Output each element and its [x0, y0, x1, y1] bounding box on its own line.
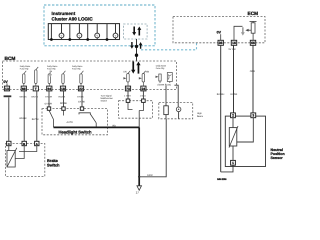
svg-text:Fuse Rly: Fuse Rly [72, 67, 82, 70]
svg-text:B: B [23, 142, 25, 146]
svg-text:Fuse Rly: Fuse Rly [156, 67, 166, 70]
svg-text:ECM: ECM [248, 11, 259, 17]
svg-text:3: 3 [252, 114, 254, 118]
svg-text:ORG: ORG [250, 70, 255, 73]
svg-text:WH/BK: WH/BK [20, 96, 28, 99]
svg-text:13: 13 [5, 87, 9, 91]
svg-text:UN: UN [123, 71, 127, 74]
svg-text:NN: NN [146, 71, 150, 74]
svg-text:GY/BK: GY/BK [77, 96, 84, 99]
svg-text:BK/WH: BK/WH [217, 93, 225, 96]
svg-text:High: High [197, 112, 202, 115]
svg-text:Beam: Beam [197, 115, 203, 118]
svg-text:Instrument: Instrument [52, 11, 76, 16]
svg-text:BCM: BCM [5, 56, 16, 62]
svg-text:RD/BK: RD/BK [60, 102, 67, 105]
svg-text:2: 2 [232, 114, 234, 118]
svg-text:Fuse Rly: Fuse Rly [20, 67, 30, 70]
svg-text:C: C [8, 142, 10, 146]
svg-text:AUTO: AUTO [67, 121, 74, 124]
svg-text:66: 66 [251, 41, 255, 45]
svg-text:36: 36 [219, 41, 223, 45]
svg-text:V: V [79, 34, 81, 37]
svg-text:(Sheet Front): (Sheet Front) [158, 83, 172, 86]
svg-text:G302: G302 [147, 174, 153, 177]
svg-text:BK/TN: BK/TN [32, 118, 39, 121]
svg-text:64: 64 [47, 87, 51, 91]
svg-text:73: 73 [126, 87, 130, 91]
svg-text:Switch: Switch [47, 162, 60, 167]
svg-text:Switch: Switch [101, 100, 108, 103]
svg-text:68: 68 [22, 87, 26, 91]
svg-text:WH/BK: WH/BK [19, 117, 27, 120]
svg-text:T: T [35, 87, 37, 91]
svg-text:BK/TN: BK/TN [32, 96, 39, 99]
svg-text:5V SW: 5V SW [229, 48, 237, 51]
svg-text:RD: RD [113, 125, 117, 128]
svg-text:V: V [96, 34, 98, 37]
svg-text:0V: 0V [217, 31, 222, 35]
svg-text:RD/BK: RD/BK [59, 96, 66, 99]
svg-text:Headlight Switch: Headlight Switch [59, 129, 92, 134]
svg-text:A: A [36, 142, 38, 146]
svg-text:Sensor: Sensor [271, 156, 284, 160]
svg-text:V: V [115, 34, 117, 37]
svg-text:GY/BK: GY/BK [230, 93, 237, 96]
svg-text:22: 22 [79, 87, 83, 91]
svg-text:GY/OR: GY/OR [45, 103, 53, 106]
svg-text:G06 E06: G06 E06 [217, 178, 227, 181]
svg-text:Fuse Rly: Fuse Rly [47, 67, 57, 70]
svg-text:V: V [61, 34, 63, 37]
svg-text:0V: 0V [3, 80, 8, 84]
svg-text:17: 17 [136, 191, 140, 195]
svg-text:16: 16 [232, 41, 236, 45]
svg-text:GY/BK: GY/BK [78, 101, 85, 104]
svg-text:1: 1 [232, 161, 234, 165]
svg-text:24: 24 [142, 87, 146, 91]
svg-text:18: 18 [61, 87, 65, 91]
svg-text:Cluster A90 LOGIC: Cluster A90 LOGIC [52, 17, 94, 22]
